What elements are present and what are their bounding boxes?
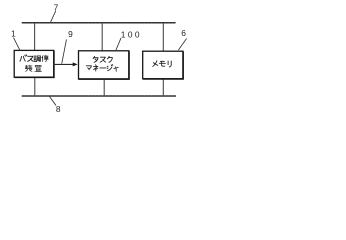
leader line for label 7 <box>50 11 55 23</box>
leader line for label 9 <box>62 40 67 64</box>
label 100 <box>121 29 142 39</box>
box 1: bus arbitration device <box>14 50 54 77</box>
svg-text:1: 1 <box>11 29 16 39</box>
glyph ャ <box>114 67 118 72</box>
wire: top bus to box 1 <box>34 23 36 50</box>
label 7 <box>54 2 59 12</box>
text タスク (line 1 of box 100) <box>93 56 112 62</box>
svg-text:9: 9 <box>68 29 73 39</box>
glyph ネ <box>94 65 98 71</box>
glyph 停 <box>42 55 49 61</box>
wire: box 1 to bottom bus <box>34 77 36 96</box>
glyph モ <box>159 61 165 66</box>
glyph 置 <box>35 65 42 71</box>
svg-text:6: 6 <box>181 28 186 38</box>
box 100: task manager <box>79 51 130 79</box>
label 6 <box>181 28 186 38</box>
glyph 装 <box>25 65 32 71</box>
glyph ク <box>107 56 112 62</box>
text マネージャ (line 2 of box 100) <box>86 65 118 72</box>
label 1 <box>11 29 16 39</box>
glyph ジ <box>107 65 113 71</box>
wire: box 100 to bottom bus <box>103 79 105 96</box>
leader line for label 8 <box>49 96 55 105</box>
label 8 <box>56 104 61 114</box>
svg-text:8: 8 <box>56 104 61 114</box>
wire: top bus to box 100 <box>101 23 103 50</box>
glyph 調 <box>34 56 41 62</box>
glyph マ <box>86 66 91 70</box>
leader line for label 100 <box>116 38 121 50</box>
leader line for label 1 <box>14 38 20 50</box>
top bus line <box>22 22 175 24</box>
leader line for label 6 <box>179 39 187 50</box>
svg-text:100: 100 <box>121 29 142 39</box>
glyph ス <box>100 57 105 62</box>
text メモリ (box 6) <box>153 61 171 67</box>
glyph タ <box>93 56 98 62</box>
glyph ー <box>100 67 106 69</box>
arrow: box 1 to task manager <box>54 62 78 66</box>
glyph リ <box>168 61 171 67</box>
text 装置 (line 2 of box 1) <box>25 65 41 71</box>
text バス調停 (line 1 of box 1) <box>20 55 48 62</box>
wire: box 6 to bottom bus <box>162 79 164 96</box>
glyph ス <box>28 56 34 61</box>
label 9 <box>68 29 73 39</box>
box 6: memory <box>143 51 183 79</box>
bottom bus line <box>22 95 175 97</box>
svg-text:7: 7 <box>54 2 59 12</box>
glyph メ <box>153 61 158 67</box>
wire: top bus to box 6 <box>162 23 164 51</box>
glyph バ <box>20 55 27 61</box>
